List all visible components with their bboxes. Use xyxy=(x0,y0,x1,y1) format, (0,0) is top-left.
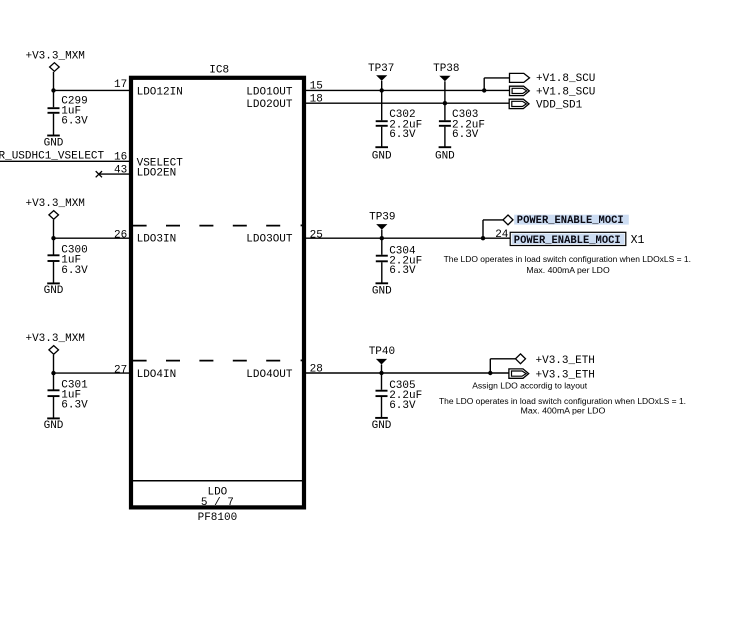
svg-text:+V3.3_MXM: +V3.3_MXM xyxy=(25,198,84,210)
svg-text:GND: GND xyxy=(372,150,392,162)
svg-text:POWER_ENABLE_MOCI: POWER_ENABLE_MOCI xyxy=(517,215,624,227)
svg-text:6.3V: 6.3V xyxy=(389,400,416,412)
svg-text:6.3V: 6.3V xyxy=(389,129,416,141)
svg-text:LDO2OUT: LDO2OUT xyxy=(246,99,293,111)
svg-text:6.3V: 6.3V xyxy=(61,115,88,127)
svg-text:PF8100: PF8100 xyxy=(198,512,238,524)
svg-text:R_USDHC1_VSELECT: R_USDHC1_VSELECT xyxy=(0,150,105,162)
svg-text:26: 26 xyxy=(114,229,127,241)
svg-text:X1: X1 xyxy=(631,234,645,247)
svg-text:GND: GND xyxy=(435,150,455,162)
svg-text:IC8: IC8 xyxy=(209,64,229,76)
svg-text:LDO12IN: LDO12IN xyxy=(137,86,183,98)
svg-text:6.3V: 6.3V xyxy=(61,265,88,277)
svg-text:LDO3IN: LDO3IN xyxy=(137,234,177,246)
svg-text:GND: GND xyxy=(44,285,64,297)
svg-text:25: 25 xyxy=(310,230,323,242)
svg-text:24: 24 xyxy=(495,229,509,241)
svg-text:TP38: TP38 xyxy=(433,63,459,75)
svg-text:+V1.8_SCU: +V1.8_SCU xyxy=(536,86,595,98)
svg-text:GND: GND xyxy=(44,138,64,150)
svg-text:TP40: TP40 xyxy=(369,346,395,358)
svg-text:17: 17 xyxy=(114,79,127,91)
svg-text:Max. 400mA per LDO: Max. 400mA per LDO xyxy=(526,265,610,275)
svg-text:LDO3OUT: LDO3OUT xyxy=(246,234,293,246)
svg-text:GND: GND xyxy=(372,420,392,432)
svg-text:+V1.8_SCU: +V1.8_SCU xyxy=(536,73,595,85)
svg-text:LDO4IN: LDO4IN xyxy=(137,369,177,381)
svg-text:TP39: TP39 xyxy=(369,211,395,223)
svg-text:LDO1OUT: LDO1OUT xyxy=(246,86,293,98)
svg-text:5 / 7: 5 / 7 xyxy=(201,497,234,509)
svg-text:6.3V: 6.3V xyxy=(61,400,88,412)
svg-text:6.3V: 6.3V xyxy=(452,129,479,141)
svg-text:The LDO operates in load switc: The LDO operates in load switch configur… xyxy=(439,396,686,406)
svg-text:+V3.3_MXM: +V3.3_MXM xyxy=(25,333,84,345)
svg-text:TP37: TP37 xyxy=(368,63,394,75)
svg-text:LDO2EN: LDO2EN xyxy=(137,168,177,180)
svg-text:+V3.3_MXM: +V3.3_MXM xyxy=(25,51,84,63)
svg-text:GND: GND xyxy=(372,285,392,297)
svg-text:27: 27 xyxy=(114,364,127,376)
svg-text:VDD_SD1: VDD_SD1 xyxy=(536,99,583,111)
svg-text:Assign LDO accordig to layout: Assign LDO accordig to layout xyxy=(472,380,587,390)
svg-text:Max. 400mA per LDO: Max. 400mA per LDO xyxy=(521,406,606,416)
svg-text:+V3.3_ETH: +V3.3_ETH xyxy=(536,355,595,367)
svg-text:GND: GND xyxy=(44,420,64,432)
svg-text:POWER_ENABLE_MOCI: POWER_ENABLE_MOCI xyxy=(514,235,621,247)
svg-text:6.3V: 6.3V xyxy=(389,265,416,277)
svg-text:LDO4OUT: LDO4OUT xyxy=(246,369,293,381)
svg-text:The LDO operates in load switc: The LDO operates in load switch configur… xyxy=(444,254,691,264)
